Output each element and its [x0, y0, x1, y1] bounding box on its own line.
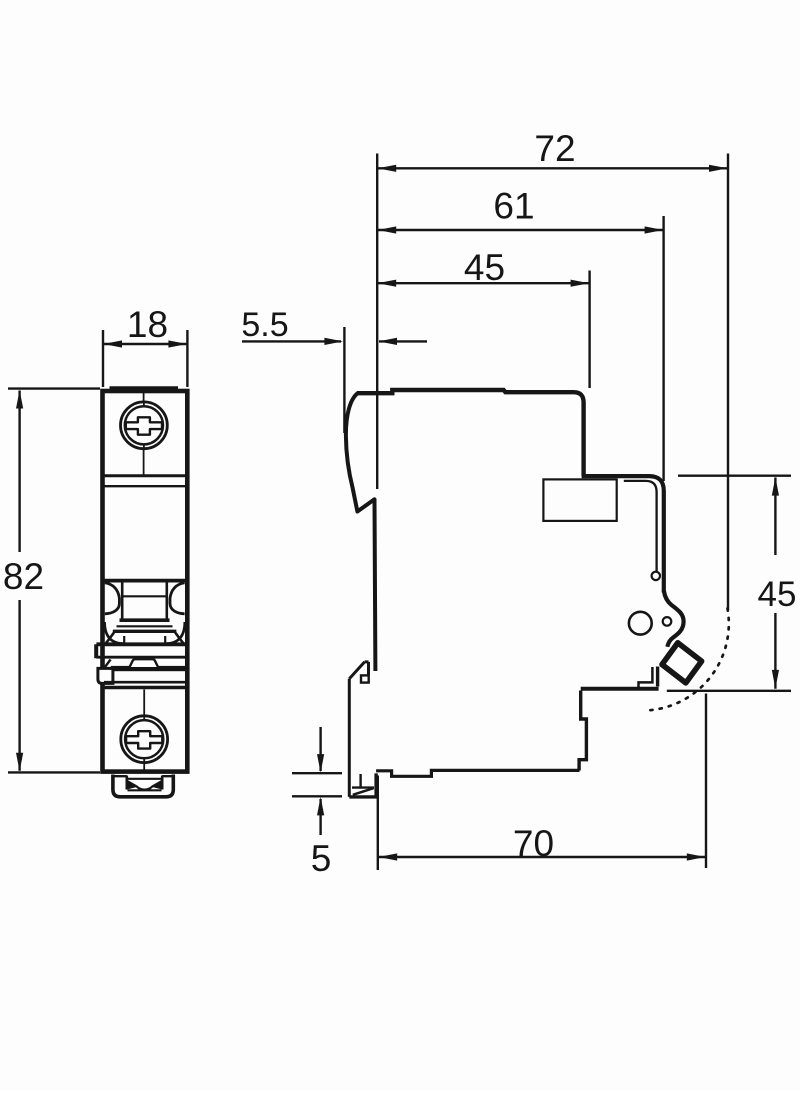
- arrow 45 top right: [571, 280, 590, 287]
- arrow 5 upper: [317, 754, 324, 773]
- svg-text:5: 5: [311, 838, 332, 879]
- dim 5 upper arrow line: [319, 727, 321, 771]
- dim 72 line: [377, 167, 728, 169]
- bottom terminal shoulders: [113, 775, 173, 777]
- bottom terminal clamp: [127, 779, 162, 791]
- toggle swing dotted arc: [646, 609, 729, 711]
- top screw slot cross: [126, 417, 162, 434]
- bottom screw centerline: [143, 690, 145, 771]
- din clip inner vertical: [359, 774, 361, 788]
- arrow 70 right: [687, 853, 706, 860]
- dim 61 line: [377, 229, 663, 231]
- recess floor left corner: [105, 622, 123, 644]
- dim 18 line: [103, 343, 187, 345]
- bottom terminal outer: [113, 775, 173, 797]
- dim 72 right extension: [727, 154, 729, 611]
- faceplate dark band: [111, 666, 187, 671]
- toggle recess right fillet: [170, 583, 185, 614]
- arrow 82 top: [16, 390, 23, 409]
- arrow 5.5 right: [378, 338, 397, 345]
- marking label rectangle: [543, 479, 616, 521]
- din clip left face: [348, 679, 351, 797]
- toggle lever crossbar: [122, 595, 167, 597]
- bottom shelf: [581, 687, 659, 691]
- svg-text:72: 72: [534, 128, 575, 169]
- arrow 61 right: [645, 226, 664, 233]
- front view top plateau: [112, 388, 177, 392]
- right edge bump (toggle boss): [664, 591, 684, 647]
- bottom screw centerline over annulus: [143, 715, 145, 764]
- dim 45 top right extension: [588, 271, 590, 389]
- front view body outline: [103, 391, 188, 772]
- pivot circle: [629, 612, 652, 635]
- din clip inner horizontal: [352, 786, 374, 788]
- toggle lever sides: [122, 582, 167, 620]
- svg-text:61: 61: [493, 186, 534, 227]
- arrow 45 right top: [772, 477, 779, 496]
- toggle skirt right: [175, 633, 184, 644]
- dim 70 line: [378, 856, 706, 858]
- top screw centerline: [143, 392, 145, 475]
- svg-text:45: 45: [464, 247, 505, 288]
- recess floor tick left: [123, 636, 125, 644]
- arrow 5 lower: [317, 797, 324, 816]
- lower right step profile: [579, 691, 586, 771]
- top screw centerline over annulus: [143, 401, 145, 450]
- detent bump: [130, 659, 158, 667]
- short thick step near toggle: [656, 667, 659, 687]
- arrow 70 left: [379, 853, 398, 860]
- dim 5.5 right line: [379, 340, 427, 342]
- dim 82 extension lines: [8, 389, 100, 773]
- din clip inner diagonal: [353, 788, 374, 795]
- toggle lever bottom bar 2: [117, 625, 173, 627]
- top terminal separator line B: [104, 485, 186, 487]
- arrow 45 right bottom: [772, 670, 779, 689]
- dim 82 line: [18, 391, 20, 771]
- dim 5.5 extension: [343, 327, 345, 433]
- dim 72/61/45 left extension: [376, 154, 378, 490]
- dim 70 extensions: [378, 694, 706, 871]
- side body beak and left face: [346, 393, 376, 672]
- svg-text:18: 18: [127, 304, 168, 345]
- left tab diagonal: [104, 660, 111, 669]
- staircase step left of toggle: [639, 667, 653, 689]
- top terminal separator line A: [104, 474, 186, 477]
- svg-text:5.5: 5.5: [241, 306, 288, 344]
- dim 45 right extensions: [667, 476, 791, 691]
- bottom screw slot cross: [126, 731, 162, 748]
- dim 45 right line: [774, 478, 776, 689]
- faceplate bottom line: [101, 686, 189, 689]
- bottom edge with recess: [376, 770, 579, 776]
- left tab: [98, 668, 113, 683]
- arrow 82 bottom: [16, 753, 23, 772]
- toggle lever bottom bar 3: [113, 630, 177, 633]
- bottom terminal clamp shading: [128, 782, 161, 789]
- arrow 18 right: [168, 340, 187, 347]
- arrow 61 left: [378, 226, 397, 233]
- faceplate left protrusion edge: [94, 644, 98, 658]
- toggle lever bottom bar 1: [120, 618, 170, 622]
- fin top outer: [582, 476, 664, 592]
- dim 45 top line: [377, 282, 589, 284]
- dim 5 extension lines: [292, 773, 342, 796]
- dim 5 lower arrow line: [319, 799, 321, 835]
- top screw outer circle: [120, 402, 167, 449]
- faceplate line 4: [104, 681, 186, 684]
- top screw inner circle: [125, 406, 163, 444]
- svg-text:70: 70: [513, 823, 554, 864]
- dimension texts: [3, 128, 797, 879]
- svg-text:45: 45: [758, 575, 797, 614]
- arrow 45 top left: [378, 280, 397, 287]
- toggle recess left fillet: [105, 583, 120, 614]
- arrow 5.5 left: [324, 338, 343, 345]
- arrow 72 left: [378, 165, 397, 172]
- small circle on bump: [663, 617, 672, 626]
- toggle recess top line: [104, 579, 186, 583]
- din clip hook foot: [361, 675, 369, 682]
- din clip upper hook: [349, 662, 368, 679]
- dim 5.5 left line: [242, 340, 341, 342]
- din clip bottom hook: [349, 773, 376, 797]
- recess floor tick right: [164, 636, 166, 644]
- recess floor right corner: [166, 622, 184, 644]
- notch circle on edge: [652, 572, 660, 580]
- dim 18 extension lines: [103, 330, 187, 387]
- faceplate second line: [96, 656, 186, 659]
- fin top inner contour: [624, 481, 657, 571]
- faceplate top line: [96, 642, 189, 646]
- side body top edge and right face: [357, 390, 584, 476]
- bottom screw outer circle: [121, 716, 168, 763]
- arrow 72 right: [709, 165, 728, 172]
- svg-text:82: 82: [3, 556, 44, 597]
- bottom terminal inner walls: [127, 776, 162, 790]
- dim 61 right extension: [662, 216, 664, 481]
- toggle handle (off position): [662, 643, 702, 683]
- toggle skirt left: [106, 633, 115, 644]
- arrowheads: [16, 165, 779, 861]
- bottom screw inner circle: [125, 720, 163, 758]
- arrow 18 left: [103, 340, 122, 347]
